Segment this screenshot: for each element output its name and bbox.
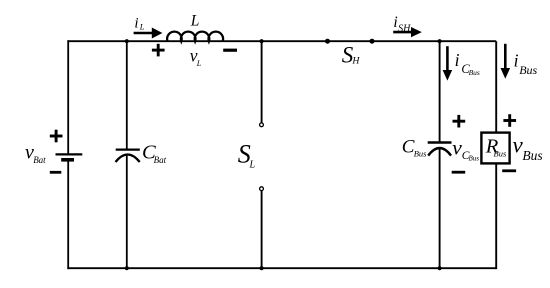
wire left rail upper xyxy=(67,40,69,154)
label SL xyxy=(238,140,256,171)
svg-text:i: i xyxy=(455,50,460,70)
polarity - of vBat xyxy=(50,171,62,174)
junction top of CBat xyxy=(125,39,129,43)
wire CBus branch upper xyxy=(439,41,441,142)
junction top of CBus xyxy=(438,39,442,43)
polarity - of vL xyxy=(223,49,237,52)
polarity - of vBus xyxy=(502,169,516,172)
svg-text:Bus: Bus xyxy=(469,68,480,77)
capacitor CBat xyxy=(116,150,140,162)
svg-text:i: i xyxy=(134,15,138,31)
wire bottom rail xyxy=(67,267,496,269)
svg-text:L: L xyxy=(249,159,256,170)
label vBat xyxy=(25,141,46,165)
junction top of SL xyxy=(260,39,264,43)
wire CBus branch lower xyxy=(439,148,441,269)
label vBus xyxy=(513,132,543,163)
battery VBat xyxy=(56,154,83,159)
wire left rail lower xyxy=(67,160,69,269)
label CBus xyxy=(402,137,427,159)
label RBus xyxy=(485,136,507,159)
label iL xyxy=(134,15,144,31)
wire top rail xyxy=(67,40,496,42)
svg-text:L: L xyxy=(196,59,202,68)
label iSH xyxy=(393,14,411,35)
current arrow iL xyxy=(134,28,163,39)
polarity + of vL xyxy=(152,44,165,57)
svg-text:Bus: Bus xyxy=(414,149,427,159)
junction bottom of CBat xyxy=(125,266,129,270)
svg-text:Bus: Bus xyxy=(469,155,480,163)
svg-text:L: L xyxy=(139,22,145,32)
current arrow iSH xyxy=(393,27,422,37)
polarity - of vCBus xyxy=(452,171,466,174)
inductor L xyxy=(167,32,223,42)
svg-text:Bat: Bat xyxy=(154,155,167,165)
svg-text:i: i xyxy=(514,50,519,70)
wire CBat branch upper xyxy=(126,41,128,149)
polarity + of vCBus xyxy=(453,115,466,128)
svg-text:L: L xyxy=(190,12,200,29)
svg-text:i: i xyxy=(393,14,397,31)
wire RBus branch lower xyxy=(495,163,497,269)
junction bottom of CBus xyxy=(438,266,442,270)
wire RBus branch upper xyxy=(495,41,497,132)
current arrow iCBus xyxy=(443,46,453,80)
label CBat xyxy=(142,142,167,165)
capacitor CBus xyxy=(428,143,452,156)
label iBus xyxy=(514,50,538,77)
svg-text:H: H xyxy=(351,56,360,67)
junction bottom of SL xyxy=(260,266,264,270)
svg-text:Bat: Bat xyxy=(33,155,46,165)
label iCBus xyxy=(455,50,480,77)
label vL xyxy=(190,46,202,69)
svg-text:Bus: Bus xyxy=(494,149,507,159)
switch SL xyxy=(260,41,264,268)
svg-text:SH: SH xyxy=(398,23,411,34)
wire CBat branch lower xyxy=(126,154,128,268)
svg-text:Bus: Bus xyxy=(519,63,537,77)
switch SH xyxy=(325,39,375,44)
resistor RBus xyxy=(481,133,509,164)
label SH xyxy=(342,43,361,68)
label vCBus xyxy=(452,136,479,163)
current arrow iBus xyxy=(501,44,511,79)
polarity + of vBat xyxy=(50,130,63,143)
polarity + of vBus xyxy=(503,114,516,127)
svg-text:Bus: Bus xyxy=(522,148,542,163)
